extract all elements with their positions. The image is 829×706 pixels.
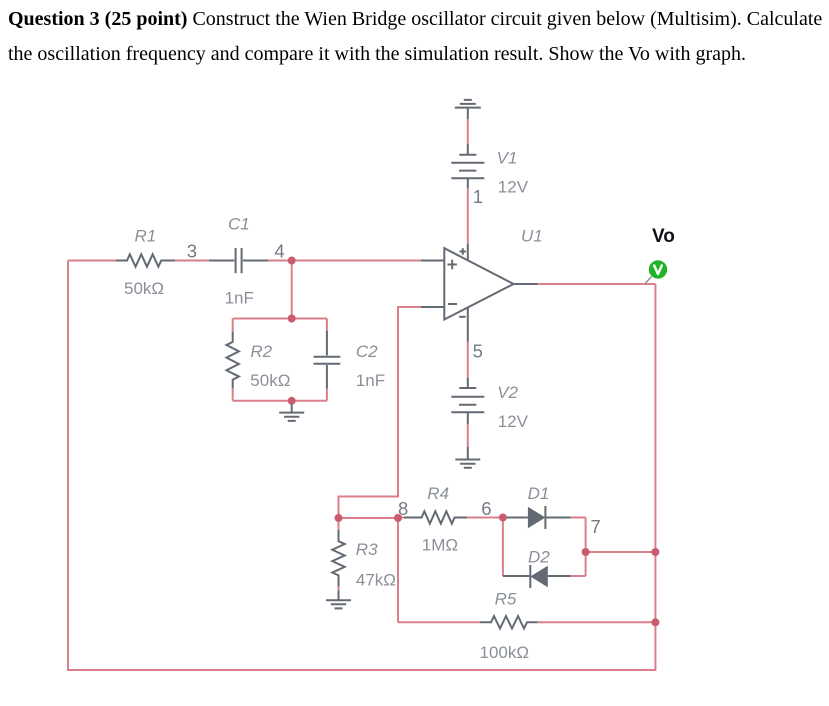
svg-text:D2: D2 [528, 548, 550, 567]
svg-text:1MΩ: 1MΩ [422, 536, 458, 555]
svg-text:Vo: Vo [652, 226, 675, 247]
svg-text:8: 8 [398, 498, 408, 519]
svg-text:R4: R4 [427, 484, 449, 503]
svg-text:D1: D1 [528, 484, 550, 503]
svg-text:50kΩ: 50kΩ [250, 371, 290, 390]
svg-text:5: 5 [473, 341, 483, 362]
svg-text:R3: R3 [356, 540, 378, 559]
svg-text:47kΩ: 47kΩ [356, 570, 396, 589]
svg-text:C2: C2 [356, 342, 378, 361]
svg-text:U1: U1 [521, 227, 543, 246]
svg-text:7: 7 [591, 516, 601, 537]
svg-text:50kΩ: 50kΩ [124, 279, 164, 298]
svg-text:100kΩ: 100kΩ [480, 643, 530, 662]
svg-text:1: 1 [473, 186, 483, 207]
svg-text:R2: R2 [250, 342, 272, 361]
svg-text:4: 4 [274, 241, 284, 262]
svg-text:C1: C1 [228, 215, 250, 234]
svg-text:1nF: 1nF [225, 289, 254, 308]
svg-text:V2: V2 [497, 383, 518, 402]
svg-text:3: 3 [187, 241, 197, 262]
svg-text:12V: 12V [498, 412, 529, 431]
svg-text:V1: V1 [497, 148, 518, 167]
svg-text:12V: 12V [498, 178, 529, 197]
svg-text:6: 6 [481, 498, 491, 519]
svg-text:R1: R1 [135, 227, 157, 246]
svg-text:1nF: 1nF [356, 371, 385, 390]
svg-text:R5: R5 [495, 590, 517, 609]
